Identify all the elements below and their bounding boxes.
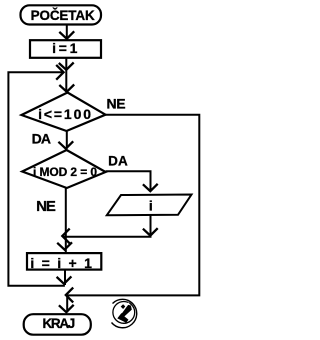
svg-text:i<=100: i<=100 <box>38 106 93 122</box>
blob diamond dot <box>121 304 126 309</box>
arrowhead into diamond2 <box>58 141 73 148</box>
wire box down to loop corner <box>64 270 66 285</box>
outer arc <box>112 299 137 327</box>
arrowhead down at parallelogram wire corner <box>143 228 158 235</box>
svg-text:KRAJ: KRAJ <box>43 316 75 331</box>
wire DA branch to parallelogram <box>106 171 151 190</box>
svg-text:i MOD 2 = 0: i MOD 2 = 0 <box>33 165 97 179</box>
blob bent bar <box>117 305 132 323</box>
svg-text:NE: NE <box>36 198 56 215</box>
wire from i=1 to junction <box>65 58 67 92</box>
svg-text:i: i <box>149 197 153 213</box>
arrowhead into parallelogram <box>143 184 158 191</box>
terminator POČETAK <box>21 5 102 24</box>
arrowhead at loop junction <box>59 63 74 70</box>
arrowhead into diamond i<=100 <box>59 85 74 92</box>
arrowhead into KRAJ <box>59 305 74 312</box>
output parallelogram i <box>107 195 192 216</box>
loop-back wire left side <box>8 72 65 285</box>
svg-text:DA: DA <box>108 154 128 169</box>
wire diamond1 to diamond2 <box>66 131 68 149</box>
svg-text:NE: NE <box>107 95 126 111</box>
wire parallelogram down and left <box>63 215 151 237</box>
logo icon next to KRAJ <box>112 299 137 327</box>
svg-text:i = i + 1: i = i + 1 <box>30 255 93 271</box>
decision diamond i<=100 <box>22 93 106 132</box>
white slit between dot and bar <box>121 303 129 313</box>
arrowhead loop into junction <box>56 65 63 80</box>
arrowhead at loop bottom corner <box>57 276 72 283</box>
arrowhead NE into pre-KRAJ junction <box>66 288 73 303</box>
decision diamond i MOD 2 = 0 <box>22 150 105 188</box>
arrowhead left into main line <box>62 229 69 244</box>
wire junction to KRAJ <box>66 295 68 312</box>
terminator KRAJ <box>24 314 91 335</box>
svg-text:POČETAK: POČETAK <box>31 8 95 23</box>
arrowhead into i=1 box <box>59 31 74 39</box>
svg-text:DA: DA <box>32 130 51 146</box>
process box i = 1 <box>30 40 101 58</box>
wire diamond2 NE down to box <box>65 188 67 252</box>
inner circle <box>113 302 135 324</box>
wire from POČETAK to i=1 <box>66 25 68 39</box>
process box i = i + 1 <box>27 253 101 270</box>
arrowhead into i=i+1 box <box>57 242 72 249</box>
wire NE branch right and down <box>67 115 199 296</box>
svg-text:i = 1: i = 1 <box>52 40 77 56</box>
